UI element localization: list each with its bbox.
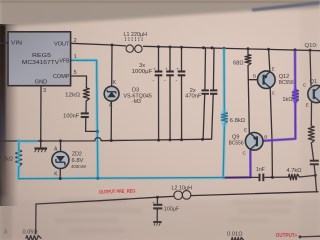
wire: IC GND pin3 down xyxy=(40,86,42,148)
svg-text:1kΩ: 1kΩ xyxy=(282,97,292,103)
transistor Q9 BC556 xyxy=(245,133,263,151)
wire: COMP pin5 xyxy=(71,76,87,88)
capacitor right edge xyxy=(310,160,319,162)
ground symbol xyxy=(34,147,47,149)
svg-text:470nF: 470nF xyxy=(185,94,202,100)
resistor 1k (purple highlighted) xyxy=(294,50,296,90)
junction dots on top rail xyxy=(111,44,114,47)
svg-text:+: + xyxy=(154,67,157,72)
svg-text:L1 220µH: L1 220µH xyxy=(124,32,148,38)
wire: VIN pin4 xyxy=(0,42,8,44)
svg-text:2kΩ: 2kΩ xyxy=(3,156,13,162)
svg-text:OUTPUT PRE_REG: OUTPUT PRE_REG xyxy=(99,189,136,196)
svg-text:400mW: 400mW xyxy=(71,164,87,169)
svg-text:B: B xyxy=(253,73,256,78)
wire: corner down at left xyxy=(35,204,37,234)
wire: output rail xyxy=(36,196,174,204)
table/top band xyxy=(0,0,320,27)
capacitor 1nF xyxy=(259,174,261,182)
purple highlighter trace xyxy=(263,51,295,141)
bottom-left soft shadow xyxy=(0,196,12,240)
svg-text:2: 2 xyxy=(74,38,77,44)
faint print bleed-through xyxy=(55,198,294,233)
cyan highlighter over rail xyxy=(19,176,224,180)
transistor Q10 (right edge, clipped) xyxy=(310,50,311,85)
svg-text:BC556: BC556 xyxy=(229,140,244,146)
diode D3 schottky xyxy=(111,45,113,86)
capacitor 100uF xyxy=(156,197,158,204)
svg-text:ZD2: ZD2 xyxy=(72,151,82,157)
svg-text:3: 3 xyxy=(43,88,46,94)
resistor 8.2k (cyan) xyxy=(18,141,20,150)
svg-text:E: E xyxy=(272,66,275,71)
wire: output pre-reg rail xyxy=(19,177,258,178)
svg-text:B: B xyxy=(264,135,267,140)
svg-text:100nF: 100nF xyxy=(63,114,80,120)
wire: VFB feedback (cyan highlighted) xyxy=(71,60,98,178)
ground symbol under 100uF xyxy=(153,221,161,223)
svg-text:4: 4 xyxy=(3,36,6,42)
svg-text:+: + xyxy=(165,67,168,72)
svg-text:VOUT: VOUT xyxy=(54,42,70,48)
svg-text:COMP: COMP xyxy=(53,74,70,80)
transistor Q12 BC556 xyxy=(258,71,276,89)
inductor L2 xyxy=(174,191,191,200)
svg-text:12kΩ: 12kΩ xyxy=(65,92,80,98)
svg-text:Q9: Q9 xyxy=(232,134,239,140)
svg-text:+: + xyxy=(177,67,180,72)
svg-text:L2 10µH: L2 10µH xyxy=(172,186,193,192)
resistor 6.8k (cyan highlighted) xyxy=(223,48,225,112)
inductor L1 xyxy=(126,45,142,53)
wire: ground rail xyxy=(0,138,211,141)
IC REG5 MC34167TV xyxy=(8,32,71,86)
svg-text:REG5: REG5 xyxy=(32,53,51,59)
svg-text:68Ω: 68Ω xyxy=(233,60,243,66)
svg-text:1nF: 1nF xyxy=(256,167,265,173)
zener ZD2 xyxy=(60,141,62,151)
resistor right edge xyxy=(308,126,314,143)
svg-text:1000µF: 1000µF xyxy=(132,69,154,75)
svg-text:MC34167TV: MC34167TV xyxy=(22,60,60,66)
svg-text:E: E xyxy=(244,127,247,132)
capacitor 100nF xyxy=(85,101,87,113)
L1 core dashes xyxy=(126,37,143,40)
corner vignette xyxy=(0,200,320,240)
svg-text:-M3: -M3 xyxy=(132,99,141,105)
svg-text:6.8kΩ: 6.8kΩ xyxy=(230,118,246,124)
svg-text:5: 5 xyxy=(74,70,77,76)
resistor 68R xyxy=(247,49,249,55)
svg-text:BC556: BC556 xyxy=(279,80,294,86)
left edge dark strip xyxy=(0,24,19,206)
wire: 68R node down to Q9 emitter xyxy=(248,80,249,133)
svg-text:4.7kΩ: 4.7kΩ xyxy=(287,168,302,174)
wire: VOUT top rail xyxy=(71,43,126,46)
resistor 12k xyxy=(83,88,89,101)
svg-text:GND: GND xyxy=(35,79,48,85)
purple highlighter Q9 collector xyxy=(224,151,251,178)
dark blue page-stack edge top right xyxy=(252,1,320,12)
svg-text:VFB: VFB xyxy=(60,58,70,64)
svg-text:VIN: VIN xyxy=(11,40,22,46)
junction dots mid rail xyxy=(17,140,20,143)
